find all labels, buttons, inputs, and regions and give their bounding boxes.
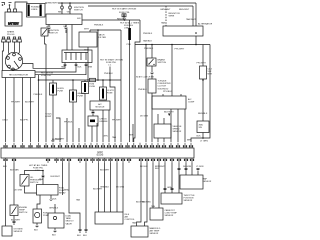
ignition switch label [74,7,84,12]
svg-text:BLK: BLK [77,235,82,237]
wire bus 4 [39,79,122,81]
svg-text:C/BLK: C/BLK [2,120,9,122]
svg-text:HOT AT ALL TIMES: HOT AT ALL TIMES [29,164,48,167]
svg-text:PPL/WHT: PPL/WHT [175,49,185,51]
fuse F3 [122,14,126,17]
wire top bus RED/WHT [45,2,196,4]
fuel pump relay box [37,185,59,196]
svg-text:TAN: TAN [151,205,156,208]
MAT sensor box [131,226,148,237]
fusible link F2 [40,5,42,17]
wire ECM out x71 [69,163,80,229]
svg-text:SWITCH: SWITCH [74,10,83,12]
wire 4WD switch out [202,133,204,139]
node J18 [109,79,111,81]
wire relay ground [50,195,52,199]
wire bus2 drop to alternator [192,6,194,26]
connector block on bus4 [90,78,96,81]
svg-text:PPL/BLK: PPL/BLK [64,122,73,124]
ignition box pin labels [47,18,81,28]
svg-text:GRN/BLK: GRN/BLK [49,208,59,210]
svg-text:HEI DISTRIBUTOR: HEI DISTRIBUTOR [9,74,28,76]
svg-text:AIR TEMP: AIR TEMP [150,230,160,233]
svg-text:ECM: ECM [97,152,102,154]
svg-text:PPL/WHT: PPL/WHT [197,63,207,65]
wire ECM out x62 [62,163,64,195]
connector C11 [171,188,173,190]
svg-text:VALVE: VALVE [66,222,73,225]
label HOT AT ALL TIMES 2 [120,22,140,30]
node J6 [195,44,197,46]
wire plug leads [2,48,19,71]
wire ACC drop to bus4 [97,30,99,80]
svg-text:YEL: YEL [67,11,71,13]
ignition switch S1 label [49,30,59,35]
connector C4 [65,25,67,34]
diode block box [88,116,98,126]
svg-text:PNK: PNK [127,44,132,46]
fuse F8 [100,80,107,100]
TPS box [161,193,182,204]
resistor wire R1 [165,6,167,26]
catalyst sensor label [165,209,178,217]
wire from ignition switch S1 [45,36,47,142]
wire bus3 to 4WD switch [202,45,204,122]
svg-text:TO A/C: TO A/C [45,113,52,116]
wire ECM to oxygen sensor [5,163,7,226]
wire oil switch out [25,186,37,193]
svg-text:BLK/PPL: BLK/PPL [20,120,29,122]
svg-text:DK GRN: DK GRN [14,190,23,192]
wire bus3 left drop to ECM [134,45,135,143]
battery B1 [5,9,22,26]
engine temp switch label [19,207,28,214]
svg-text:BLK: BLK [52,235,57,237]
node J7 [151,44,153,46]
wire bus 2 [88,5,193,7]
connector C14 [197,168,199,170]
ECM box [1,148,194,158]
vehicle speed sensor label [173,126,183,133]
connector C10 [164,188,166,190]
wire ignition ACC feed [90,30,121,32]
svg-text:GRA: GRA [167,186,172,189]
tank selector valve detail [53,216,56,219]
fuel pump ground stub [34,223,39,232]
svg-text:SENSOR: SENSOR [203,181,212,183]
TCC solenoid box [148,79,156,93]
node J11 [102,79,104,81]
node J17 [145,44,147,46]
distributor tower T5 [12,68,15,71]
fuse F5 label [58,88,65,93]
wire fuse to relay [42,171,44,185]
wire fuse F3 drop [123,17,125,20]
svg-text:BLK: BLK [78,67,83,69]
svg-text:BLK/WHT: BLK/WHT [25,102,35,104]
svg-text:TAN: TAN [112,136,117,139]
oxygen sensor label [14,229,23,234]
wire stub tick79 [78,128,80,142]
svg-text:TAN: TAN [61,66,66,69]
svg-text:TAN: TAN [161,22,166,25]
svg-text:SW: SW [199,127,202,129]
svg-text:FUSE: FUSE [78,96,84,98]
svg-text:BLK/WHT: BLK/WHT [100,170,110,172]
wire battery positive to fusible links [15,2,27,9]
svg-text:BLK/WHT: BLK/WHT [164,112,174,114]
wire VSS feed 2 [163,118,165,124]
TPS label [184,195,196,202]
fuse F6 label [78,92,86,98]
svg-text:BLK/WHT: BLK/WHT [52,139,62,141]
distributor tower T1 [13,53,16,56]
wire stub tick185 [184,109,186,142]
svg-text:BATTERY: BATTERY [8,23,19,26]
svg-text:DUAL: DUAL [66,215,72,218]
wire bus3 to brake switch [151,45,153,59]
svg-text:FILTER: FILTER [99,37,107,39]
wire compressor to ECM [170,109,172,142]
connector C1 [61,3,64,14]
wire coil GRN line [35,63,86,75]
wire ignition feed to coil 1 [66,29,68,50]
label SPARK PLUGS [7,31,15,37]
AC compressor pins [163,94,181,96]
svg-text:MODULE: MODULE [96,107,106,109]
svg-text:SENSOR: SENSOR [173,131,182,133]
connector C9 [85,229,87,233]
ignition switch box [46,14,82,25]
connector C3 [48,25,50,34]
svg-text:LT GRN: LT GRN [200,140,208,142]
connector C5 [151,66,153,79]
svg-text:AIR: AIR [125,216,129,219]
fusible links label [31,7,41,12]
svg-text:TAN/WHT: TAN/WHT [186,18,196,21]
svg-text:WIRE: WIRE [169,16,175,18]
wire oil switch feed [25,171,44,175]
svg-text:LT GRN: LT GRN [196,166,204,168]
wire PNK/BLK drop to ECM [38,75,40,142]
cluster voltmeter label [208,69,214,76]
distributor cap circle [5,52,22,69]
wire VSS out 1 [157,138,159,142]
svg-text:IGN: IGN [77,18,81,20]
wire IGN feed corner to bus3 [135,20,140,45]
svg-text:RED/BLK: RED/BLK [198,113,208,115]
wire ECM out x112 [110,163,112,212]
connector on PNK wire [42,176,44,178]
svg-text:DK GRN: DK GRN [140,116,149,118]
ECM label [97,152,104,157]
wire stub tick133 [132,124,134,142]
connector C13 [185,168,187,170]
svg-text:PNK: PNK [39,179,44,181]
AC module box [90,101,110,110]
svg-text:BRN: BRN [129,135,134,137]
fuse F8 label [107,90,114,95]
ECM top connector row [3,143,193,148]
svg-text:WHT: WHT [84,29,90,31]
catalyst sensor box [150,208,163,220]
svg-text:PNK/BLK: PNK/BLK [104,73,113,75]
tachometer filter label [99,34,107,40]
svg-text:SWITCH: SWITCH [19,212,28,214]
svg-text:A/C: A/C [98,103,102,106]
connector relay ground [50,199,52,200]
wire stub tick67 [66,118,68,142]
svg-text:ALTERNATOR: ALTERNATOR [198,23,212,26]
svg-text:SENSOR: SENSOR [150,233,159,235]
wire stub tick97 [96,123,98,142]
wire ECM out x165 [164,163,166,193]
svg-text:RED/WHT: RED/WHT [179,9,190,11]
wire ignition IGN feed [82,19,140,21]
wire ECM out x121 [116,163,118,212]
svg-text:A/C: A/C [188,98,192,101]
svg-text:HOT IN START OR RUN: HOT IN START OR RUN [100,59,123,62]
svg-text:GRN/WHT: GRN/WHT [160,9,171,11]
distributor tower T4 [8,65,11,68]
MAP sensor box [180,175,203,189]
node J10 [87,79,89,81]
wire VSS feed 1 [157,114,159,124]
brake switch label [158,59,167,65]
svg-text:SENSOR: SENSOR [165,215,174,217]
injector unit box [95,212,123,224]
svg-text:GRA: GRA [64,189,69,192]
vehicle speed sensor box [154,124,171,138]
svg-text:FUSE: FUSE [107,93,113,95]
svg-text:PPL/WHT: PPL/WHT [112,119,122,121]
svg-text:BRN: BRN [187,139,192,141]
4WD switch label [199,125,204,130]
wire bus 3 [135,44,210,46]
MAT sensor label [150,227,161,235]
wire ECM out x88 [85,163,87,229]
connector C12 [178,168,180,170]
wire stub tick60 [56,118,60,142]
tank selector ground stub [52,228,57,237]
svg-text:TANK: TANK [66,217,72,220]
label HOT AT ALL TIMES 3 [29,164,48,172]
svg-text:SWITCH: SWITCH [158,62,167,64]
wire ECM out x179 [178,163,180,193]
node J19 [202,79,204,81]
HEI distributor box [2,71,35,78]
wire fuse F5 to ECM [52,95,54,142]
AC compressor box [152,96,186,109]
engine temp switch S4 [10,205,18,216]
alternator box [163,26,203,36]
4WD switch box [197,121,209,133]
svg-text:BLK: BLK [197,136,202,138]
MAP sensor label [203,177,212,183]
wire diode block to ECM [91,126,93,142]
svg-text:SENSOR: SENSOR [184,200,193,202]
wire fusible link F4 to ECM [129,40,131,142]
svg-text:DK GRN: DK GRN [183,166,192,168]
label BLK/WHT 4 [45,113,56,143]
wire stub tick178 [177,109,179,142]
fuel pump label [43,213,50,218]
wire ECM to temp switch [13,163,15,205]
fuel pump M1 [33,209,42,223]
supply callout bullets [41,73,54,78]
node J16 [38,79,40,81]
svg-text:TAN: TAN [132,222,137,225]
svg-text:DK BLU: DK BLU [140,166,148,168]
wire bus3 drop x146 to ECM [145,45,147,143]
wire ECM out x186 [185,163,187,175]
wire bus3 to compressor [171,45,173,97]
wire alternator output [195,36,197,45]
label BLK/WHT arrow [164,112,174,117]
tank selector valve label [66,215,75,226]
svg-text:SENSOR: SENSOR [14,231,23,233]
wire AC module out2 [102,110,104,142]
ground symbol G1 [2,3,5,6]
injector unit label [125,214,136,221]
svg-text:C 1: C 1 [108,65,112,67]
svg-text:RED/BLK: RED/BLK [117,18,127,20]
wire distributor pin1 to ECM [5,78,7,143]
svg-text:PPL/BLK: PPL/BLK [163,91,172,93]
svg-text:BLK/WHT: BLK/WHT [51,176,61,178]
svg-text:PLUGS: PLUGS [7,34,15,36]
oxygen sensor box [2,226,12,236]
oil pressure switch label [30,177,42,184]
svg-text:CONTROL: CONTROL [125,219,136,221]
svg-text:BLK: BLK [34,230,39,232]
svg-text:COMP: COMP [45,116,52,118]
wire ECM out x147 [145,163,148,226]
ground symbol G2 [9,3,12,10]
spark plug P3 [13,37,17,48]
fuse F6 [70,80,77,102]
wire ACC drop2 to bus4 [120,30,122,142]
svg-text:BLK/TAN: BLK/TAN [10,169,19,172]
svg-text:FUSE: FUSE [90,86,96,88]
wire ECM out x192 [191,163,193,175]
connector C8 [79,229,81,233]
wire coil BLK line [35,63,76,73]
node J13 [42,170,44,172]
svg-text:BLK: BLK [155,168,160,170]
connector C2 [69,3,72,14]
svg-text:SWITCH: SWITCH [30,182,39,184]
ignition coil box [62,50,92,63]
connector C6 [92,110,94,116]
wire staircase from J18 [110,80,115,142]
node J4 [124,19,126,21]
wire TCC to ECM [151,93,153,142]
wire ECM out x97 [98,163,100,212]
wire fuse F7 to ECM [84,94,86,143]
svg-text:FUSE PNL: FUSE PNL [41,75,52,77]
node J9 [72,79,74,81]
wire ECM out x123 [122,163,124,212]
svg-text:ORN: ORN [103,136,108,138]
node J15 [171,44,173,46]
node J2 [69,2,71,4]
svg-text:MAP: MAP [203,177,208,180]
connector C7 [13,216,15,226]
svg-text:LINKS: LINKS [31,9,38,11]
wire tachometer filter to coil [87,47,89,80]
wire ECM out x153 [152,163,154,208]
wire distributor pin2 to ECM [13,78,15,143]
fuel pump relay label [59,188,66,195]
svg-text:COMP: COMP [188,102,195,104]
wire relay to fuel pump [37,195,40,209]
svg-text:RED/WHT: RED/WHT [48,3,59,5]
svg-text:SPARK: SPARK [7,31,15,34]
svg-text:TAN/BLK: TAN/BLK [143,40,152,43]
wire ECM out x104 [104,163,106,212]
svg-text:PUMP: PUMP [43,215,50,217]
svg-text:TAN: TAN [76,199,81,202]
svg-text:PNK/BLK: PNK/BLK [94,25,104,27]
AC compressor label [188,98,195,104]
supply callout 2 [100,59,123,67]
wire fuse F6 to ECM [72,102,74,142]
brake switch S2 [147,58,156,66]
fusible links box [27,4,46,18]
fusible link F1 [28,5,30,17]
wire coil TAN line [23,63,65,69]
svg-text:BRN/WHT: BRN/WHT [155,166,165,168]
spark plug P2 [7,37,11,48]
svg-text:BLK: BLK [53,199,58,201]
svg-text:GRN: GRN [88,67,93,69]
resistor wire label [169,13,181,18]
svg-text:W/ A/T: CLUTCH SW: W/ A/T: CLUTCH SW [136,76,154,79]
wire ECM out x172 [171,163,173,193]
svg-text:TACH: TACH [99,34,105,37]
svg-text:BLK/WHT: BLK/WHT [11,219,21,221]
label RED/WHT [47,1,58,4]
svg-text:CATALYST: CATALYST [165,209,176,212]
AC module label [96,103,106,109]
distributor tower T2 [7,57,10,60]
node J3 [97,29,99,31]
wire selector valve feed [54,204,56,213]
svg-text:RED: RED [58,11,63,13]
node J12 [97,79,99,81]
svg-text:SOLENOID: SOLENOID [158,88,169,90]
wire ECM out x141 [137,163,142,226]
fuse F7 [82,80,89,94]
wire ignition feed to coil 2 [71,25,73,51]
wire bus1 drop to alternator [195,3,197,26]
spark plug P4 [18,37,22,48]
svg-text:(ECM): (ECM) [97,155,104,157]
ECM bottom connector row [3,158,194,163]
ignition coil windings [64,53,88,61]
label CHECK ENGINE [100,118,109,123]
wire distributor pin3 to ECM [22,78,24,143]
svg-text:BLK: BLK [83,235,88,237]
svg-text:BLK/WHT: BLK/WHT [93,189,103,191]
node J5 [195,32,197,34]
node J8 [202,137,204,139]
cluster voltmeter box [200,66,207,79]
TCC solenoid label [158,81,172,91]
tachometer filter box [79,32,97,47]
svg-text:SWITCH: SWITCH [49,33,58,35]
